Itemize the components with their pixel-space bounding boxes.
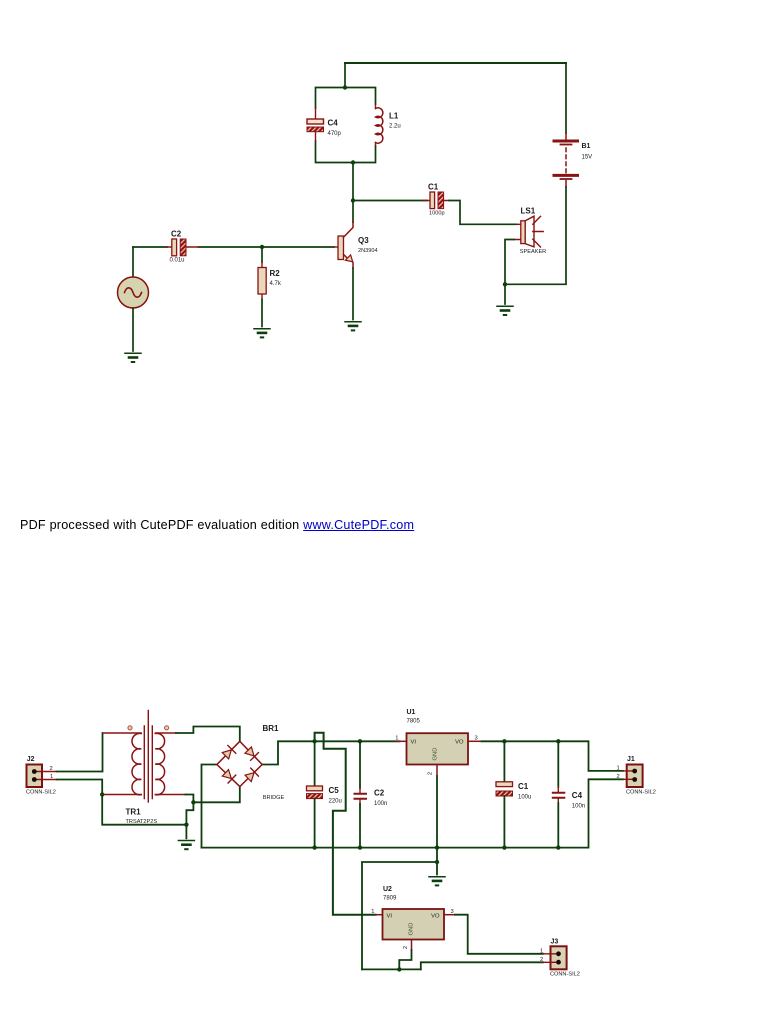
wire common to ground (185, 825, 187, 839)
node rail C5 (312, 739, 316, 743)
svg-text:J2: J2 (27, 756, 35, 763)
node base/R2 (260, 245, 264, 249)
wire U2 feed (315, 733, 376, 915)
svg-text:C2: C2 (171, 229, 182, 238)
svg-text:2: 2 (428, 772, 434, 775)
svg-text:1000p: 1000p (429, 211, 445, 217)
svg-text:7805: 7805 (407, 719, 421, 725)
wire tank loop (316, 88, 376, 163)
svg-text:BR1: BR1 (263, 724, 280, 733)
svg-text:C2: C2 (374, 789, 385, 798)
capacitor C5 (307, 741, 342, 847)
capacitor C2b (355, 741, 388, 847)
svg-text:2: 2 (617, 774, 620, 780)
svg-text:470p: 470p (328, 131, 342, 137)
ground Q3 (345, 322, 361, 331)
svg-text:C4: C4 (572, 791, 583, 800)
wire U2 gnd (399, 950, 411, 969)
wire node to ground (504, 284, 506, 304)
svg-text:1: 1 (617, 765, 620, 771)
wire zigzag to secondary node (186, 802, 193, 824)
svg-text:1: 1 (540, 949, 543, 955)
wire tank top drop (344, 63, 346, 88)
wire common rail (102, 795, 186, 825)
svg-text:0.01u: 0.01u (170, 258, 185, 264)
regulator U1 (395, 709, 481, 776)
svg-text:TR1: TR1 (126, 808, 142, 817)
svg-text:220u: 220u (329, 799, 342, 805)
svg-text:CONN-SIL2: CONN-SIL2 (550, 972, 580, 978)
svg-text:2.2u: 2.2u (389, 124, 401, 130)
svg-text:LS1: LS1 (521, 207, 536, 216)
svg-text:1: 1 (371, 909, 374, 915)
svg-text:J3: J3 (551, 939, 559, 946)
ground speaker (497, 306, 513, 315)
svg-text:GND: GND (409, 923, 415, 936)
wire bridge left to bottom rail (202, 765, 217, 848)
svg-text:100u: 100u (518, 795, 531, 801)
ground source (125, 353, 141, 362)
node rail c1 (502, 845, 506, 849)
svg-text:C5: C5 (329, 786, 340, 795)
wire base row (133, 246, 334, 248)
svg-text:U2: U2 (383, 886, 392, 893)
svg-text:J1: J1 (627, 756, 635, 763)
wire secondary bottom (186, 795, 194, 803)
node gnd spur (435, 860, 439, 864)
svg-text:U1: U1 (407, 709, 416, 716)
wire collector drop (352, 163, 354, 223)
svg-text:BRIDGE: BRIDGE (263, 795, 285, 801)
node C4b (556, 739, 560, 743)
svg-text:VO: VO (455, 740, 464, 746)
node rail c5 (312, 845, 316, 849)
transformer TR1 (104, 711, 186, 826)
wire battery drop (565, 63, 567, 133)
svg-text:2: 2 (50, 766, 53, 772)
bridge BR1 (217, 724, 285, 801)
svg-text:2: 2 (540, 957, 543, 963)
battery B1 (554, 133, 592, 187)
capacitor C1b (496, 741, 531, 847)
svg-text:2N3904: 2N3904 (358, 248, 378, 254)
node U2 gnd (397, 967, 401, 971)
svg-text:C1: C1 (518, 782, 529, 791)
node U1 gnd rail (435, 845, 439, 849)
svg-text:CONN-SIL2: CONN-SIL2 (26, 790, 56, 796)
svg-text:100n: 100n (572, 804, 585, 810)
wire to C1 (353, 200, 427, 202)
svg-text:Q3: Q3 (358, 236, 369, 245)
wire top rail (345, 62, 566, 64)
node secondary bottom (191, 800, 195, 804)
svg-text:GND: GND (433, 748, 439, 761)
svg-text:VO: VO (431, 914, 440, 920)
connector J3 (540, 939, 580, 978)
wire secondary top to bridge (176, 727, 240, 742)
ground R2 (254, 329, 270, 338)
svg-text:C1: C1 (428, 183, 439, 192)
svg-text:1: 1 (50, 774, 53, 780)
svg-text:15V: 15V (582, 155, 593, 161)
ground U1 (429, 877, 445, 886)
resistor R2 (258, 247, 282, 327)
wire battery to speaker node (505, 187, 566, 284)
node C1b (502, 739, 506, 743)
svg-text:SPEAKER: SPEAKER (520, 249, 546, 255)
wire bridge bottom link (193, 787, 239, 803)
capacitor C4 (307, 108, 342, 141)
node tank top (343, 85, 347, 89)
wire bridge right to rail (262, 741, 399, 764)
sine source (118, 247, 149, 351)
wire bottom rail (202, 779, 624, 847)
node speaker ground (503, 282, 507, 286)
transistor Q3 (334, 222, 378, 268)
wire C1 to speaker (449, 201, 517, 225)
capacitor C2 (167, 229, 199, 263)
speaker LS1 (514, 207, 546, 256)
wire J3 pin2 (421, 962, 543, 969)
svg-text:VI: VI (387, 914, 393, 920)
svg-text:C4: C4 (328, 119, 339, 128)
wire output rail (482, 741, 624, 771)
svg-text:1: 1 (395, 736, 398, 742)
svg-text:100n: 100n (374, 801, 387, 807)
node tank bottom (351, 160, 355, 164)
svg-text:VI: VI (411, 740, 417, 746)
wire gnd return (362, 968, 421, 970)
node common (184, 823, 188, 827)
svg-text:2: 2 (403, 946, 409, 949)
wire emitter to ground (352, 268, 354, 320)
node rail C2 (358, 739, 362, 743)
svg-text:R2: R2 (270, 269, 281, 278)
ground TR1 (178, 841, 194, 850)
svg-text:CONN-SIL2: CONN-SIL2 (626, 790, 656, 796)
connector J2 (26, 756, 57, 796)
svg-text:7809: 7809 (383, 896, 397, 902)
regulator U2 (371, 886, 455, 950)
connector J1 (617, 756, 656, 796)
svg-text:L1: L1 (389, 112, 399, 121)
wire U1 gnd (436, 776, 438, 862)
svg-text:4.7k: 4.7k (270, 281, 282, 287)
wire speaker to ground node (505, 240, 514, 285)
node primary bottom (100, 792, 104, 796)
capacitor C1 (423, 183, 449, 217)
node rail c4 (556, 845, 560, 849)
svg-text:B1: B1 (582, 143, 591, 150)
wire gnd spur (362, 862, 437, 969)
inductor L1 (376, 104, 401, 146)
node collector tap (351, 198, 355, 202)
wire J2 pin2 to primary top (57, 733, 103, 772)
svg-text:TRSAT2P2S: TRSAT2P2S (126, 819, 158, 825)
capacitor C4b (553, 741, 585, 847)
wire U2 out to J3 (455, 915, 543, 954)
node rail c2 (358, 845, 362, 849)
wire J2 pin1 down (57, 780, 102, 795)
